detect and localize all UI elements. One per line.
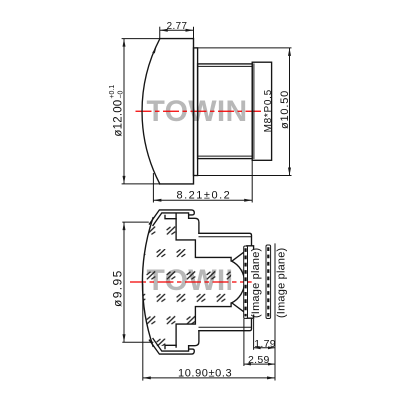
retainer cap top outer	[149, 210, 194, 224]
svg-text:ø12.00: ø12.00	[112, 100, 124, 137]
internal staircase upper	[176, 214, 231, 261]
dimension 8.21±0.2	[153, 160, 252, 202]
mount bottom edge outer	[199, 318, 252, 331]
centerline red tick at image plane	[248, 281, 252, 283]
retainer cap top inner	[153, 213, 188, 226]
dimension ø12.00 +0.1/-0	[122, 39, 160, 184]
mount bottom edge inner	[199, 326, 251, 328]
cap right block top	[189, 213, 199, 233]
cone edge upper	[232, 252, 244, 261]
glass top edge	[165, 215, 176, 218]
svg-text:ø9.95: ø9.95	[110, 269, 124, 307]
dimension 2.59	[244, 319, 275, 367]
svg-text:2.77: 2.77	[167, 21, 188, 32]
mount rear tab top	[247, 246, 254, 249]
svg-text:M8*P0.5: M8*P0.5	[263, 89, 274, 132]
retainer cap bottom outer	[149, 340, 194, 354]
svg-text:ø10.50: ø10.50	[279, 90, 291, 129]
dimension ø10.50	[196, 48, 292, 176]
svg-text:−0: −0	[117, 91, 124, 99]
aperture mark on arc top	[152, 47, 156, 53]
svg-text:(Image plane): (Image plane)	[250, 248, 262, 318]
rear lens arc	[231, 261, 244, 303]
dimension 1.79	[254, 243, 275, 380]
cap right block bottom	[189, 331, 199, 351]
filter strip 1	[244, 246, 248, 318]
svg-text:+0.1: +0.1	[109, 85, 116, 99]
thread section M8	[198, 64, 253, 159]
mount top edge outer	[199, 233, 252, 246]
svg-text:(Image plane): (Image plane)	[275, 248, 287, 318]
centerline bottom view	[130, 281, 244, 283]
glass bottom edge	[165, 345, 176, 348]
svg-text:1.79: 1.79	[254, 338, 276, 350]
internal staircase lower	[176, 303, 231, 347]
glass hatch fill	[120, 205, 280, 355]
rear lens element white body	[231, 257, 244, 306]
dimension ø9.95	[122, 222, 153, 342]
thread root line top	[199, 65, 253, 67]
filter strip 2	[266, 245, 271, 319]
svg-text:2.59: 2.59	[248, 354, 270, 366]
retainer cap bottom inner	[153, 339, 188, 352]
cone edge lower	[232, 303, 244, 312]
dimension 10.90±0.3	[143, 284, 275, 381]
rear cylinder	[252, 62, 271, 160]
lens head barrel	[160, 39, 194, 184]
mount top edge inner	[199, 236, 251, 238]
image plane label 1	[250, 248, 262, 318]
lens dome arc	[142, 39, 160, 184]
image plane label 2	[275, 248, 287, 318]
svg-text:8.21±0.2: 8.21±0.2	[177, 189, 232, 201]
thread runout line	[253, 64, 255, 159]
mount rear tab bottom	[247, 315, 254, 318]
centerline top view	[136, 110, 262, 112]
front lens arc	[142, 218, 153, 346]
dimension 2.77	[160, 27, 194, 39]
thread root line bottom	[199, 155, 253, 157]
svg-text:10.90±0.3: 10.90±0.3	[178, 368, 232, 380]
thread label M8*P0.5	[263, 89, 274, 132]
flange ring	[194, 48, 198, 176]
